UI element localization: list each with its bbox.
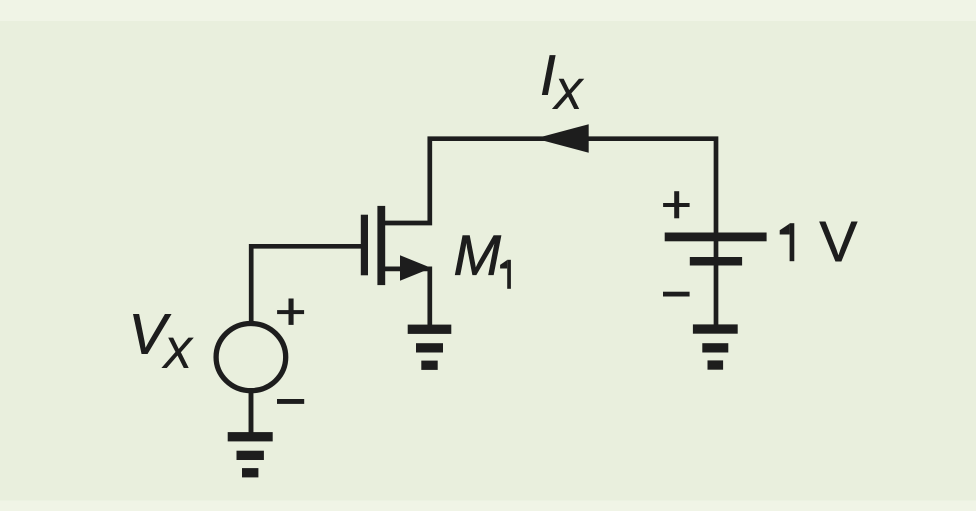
battery 1V bottom plate (negative) — [690, 257, 742, 266]
label Vx — [133, 314, 171, 353]
transistor M1 gate plate — [361, 215, 368, 276]
wire: gate of M1 left and down to Vx — [251, 246, 361, 322]
transistor M1 channel bar — [377, 206, 385, 285]
ground at M1 source — [408, 325, 452, 370]
label Ix — [542, 55, 555, 94]
ground below Vx — [228, 432, 273, 477]
wire: source of M1 down to ground — [384, 269, 430, 326]
label M1 — [455, 236, 501, 275]
plus sign at battery — [663, 191, 690, 218]
label 1 V — [790, 223, 795, 261]
ground below battery — [693, 324, 738, 369]
voltage source Vx circle — [216, 324, 286, 391]
wire: Vx bottom to ground — [249, 392, 254, 435]
minus sign at Vx — [277, 399, 304, 404]
transistor M1 source arrow — [400, 255, 431, 280]
minus sign at battery — [663, 292, 690, 297]
battery 1V top plate (positive) — [665, 233, 767, 242]
current arrow Ix (pointing left) — [535, 124, 588, 153]
wire: M1 drain up, across top rail, down to battery positive — [384, 139, 716, 326]
plus sign at Vx — [277, 299, 304, 325]
